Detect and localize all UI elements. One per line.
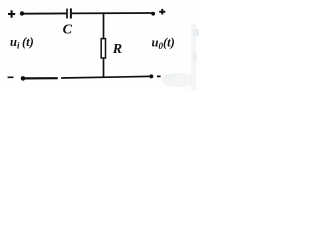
terminal - (bottom left)	[8, 76, 14, 78]
wire: top rail, capacitor to right end	[72, 12, 154, 14]
terminal + (top left)	[8, 10, 15, 17]
svg-text:u0(t): u0(t)	[152, 35, 175, 51]
wire: top rail, terminal dot to capacitor	[23, 12, 66, 14]
wire: vertical, top rail junction down to resistor	[103, 12, 105, 39]
capacitor C, left plate	[66, 9, 68, 19]
svg-text:ui (t): ui (t)	[10, 35, 34, 51]
capacitor C, right plate	[70, 8, 72, 18]
node: top rail right end dot	[151, 12, 155, 16]
wire: bottom rail left segment	[24, 77, 58, 79]
node: bottom-right terminal dot	[149, 74, 153, 78]
svg-text:C: C	[63, 23, 73, 38]
terminal - (bottom right)	[157, 75, 161, 77]
background page	[0, 0, 199, 91]
svg-text:R: R	[112, 42, 122, 57]
wire: vertical, resistor down to bottom rail	[103, 58, 105, 77]
wire: bottom rail right segment	[61, 76, 149, 78]
node: top-left input terminal dot	[20, 11, 24, 15]
resistor R body	[101, 39, 105, 58]
node: bottom-left terminal dot	[21, 76, 26, 81]
terminal + (top right)	[159, 9, 165, 15]
right edge scan streak (decorative)	[191, 24, 196, 91]
